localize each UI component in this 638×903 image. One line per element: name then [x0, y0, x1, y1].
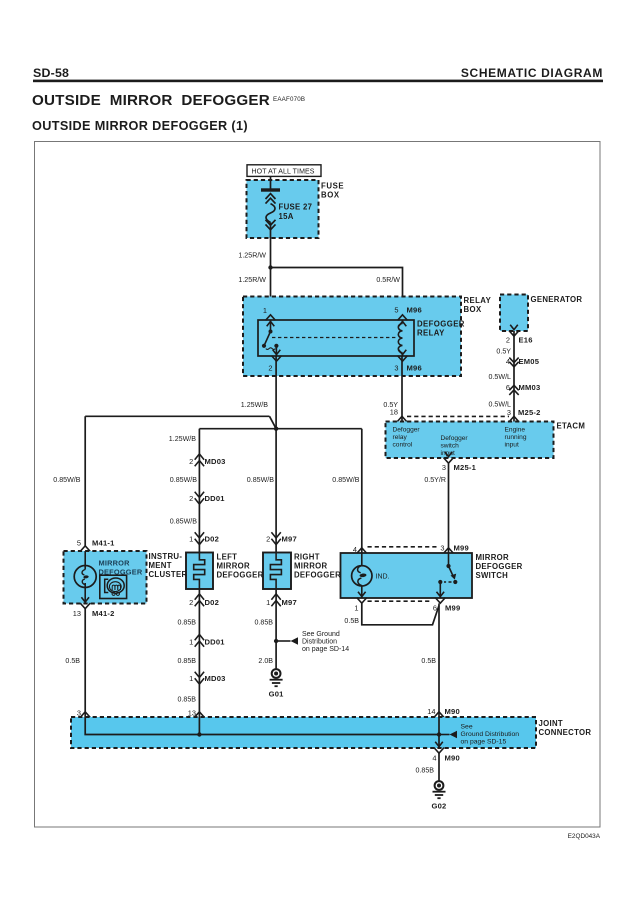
svg-text:DD01: DD01 — [205, 638, 226, 647]
wire distribution run A — [85, 415, 269, 417]
note see ground distribution SD-15 — [439, 734, 450, 736]
svg-text:DEFOGGER: DEFOGGER — [217, 571, 264, 580]
svg-text:BOX: BOX — [464, 305, 482, 314]
svg-text:ETACM: ETACM — [557, 422, 586, 431]
svg-text:0.5Y: 0.5Y — [496, 348, 511, 356]
svg-text:5: 5 — [394, 306, 398, 315]
svg-text:M97: M97 — [282, 535, 297, 544]
svg-text:3: 3 — [394, 364, 398, 373]
svg-text:MIRROR: MIRROR — [294, 562, 327, 571]
svg-text:CONNECTOR: CONNECTOR — [539, 728, 592, 737]
svg-text:relay: relay — [393, 434, 408, 441]
pin 3 M25-2 chevron — [509, 416, 519, 422]
svg-text:0.85W/B: 0.85W/B — [53, 476, 80, 484]
svg-text:running: running — [505, 434, 527, 441]
connector M97 pin 1 — [271, 594, 280, 600]
connector MD03 pin 2 — [195, 454, 204, 460]
wire generator to ETACM — [513, 331, 515, 422]
svg-text:G01: G01 — [269, 690, 285, 699]
defogger pictogram — [100, 575, 127, 598]
svg-text:CLUSTER: CLUSTER — [149, 570, 188, 579]
label HOT AT ALL TIMES — [247, 165, 321, 177]
svg-text:EAAF070B: EAAF070B — [273, 96, 305, 103]
svg-text:2: 2 — [266, 535, 270, 544]
svg-text:MIRROR: MIRROR — [476, 553, 509, 562]
connector D02 pin 2 — [195, 594, 204, 600]
wire M41-2 to joint connector pin 3 — [84, 609, 86, 717]
wire branch to relay pin 5 — [271, 268, 403, 321]
svg-text:Distribution: Distribution — [302, 639, 337, 646]
svg-text:18: 18 — [390, 408, 398, 417]
svg-text:DD01: DD01 — [205, 494, 226, 503]
svg-text:JOINT: JOINT — [539, 719, 563, 728]
svg-text:0.5B: 0.5B — [65, 657, 80, 665]
svg-text:3: 3 — [440, 543, 444, 552]
ground G02 — [435, 781, 444, 790]
wire switch pin 6 to M90 — [438, 603, 440, 717]
relay box outline — [243, 297, 461, 377]
svg-text:1: 1 — [354, 604, 358, 613]
svg-text:4: 4 — [432, 754, 436, 763]
connector dashed line M99 top — [368, 546, 437, 548]
pin 4 M90 — [434, 748, 444, 754]
svg-text:M90: M90 — [445, 707, 460, 716]
pin 1 — [357, 598, 367, 604]
mirror defogger indicator box — [64, 551, 147, 604]
wire below left defogger — [198, 589, 200, 717]
wire stub from hot feed — [270, 176, 272, 189]
svg-text:5: 5 — [77, 539, 81, 548]
relay coil — [402, 320, 404, 324]
indicator bulb — [361, 553, 363, 566]
wire relay pin2 down — [275, 356, 277, 429]
wire relay pin3 to ETACM pin18 — [401, 356, 403, 422]
wire to M97 — [275, 429, 277, 553]
wire to MD03 — [198, 429, 200, 553]
svg-text:Ground Distribution: Ground Distribution — [461, 731, 520, 738]
svg-text:M96: M96 — [407, 306, 422, 315]
svg-text:E16: E16 — [519, 336, 533, 345]
svg-text:E2QD043A: E2QD043A — [568, 833, 601, 840]
mirror defogger switch box — [341, 553, 473, 598]
pin 13 M41-2 — [80, 603, 90, 609]
svg-text:MD03: MD03 — [205, 674, 226, 683]
pin 6 M99 — [435, 598, 445, 604]
svg-text:RELAY: RELAY — [417, 329, 445, 338]
svg-text:M99: M99 — [445, 604, 460, 613]
fuse box outline — [247, 180, 319, 238]
svg-text:0.85W/B: 0.85W/B — [170, 476, 197, 484]
fuse F27 15A — [266, 194, 276, 199]
svg-text:FUSE 27: FUSE 27 — [279, 203, 313, 212]
svg-text:OUTSIDE MIRROR DEFOGGER: OUTSIDE MIRROR DEFOGGER — [32, 92, 270, 109]
wire to switch pin 4 — [361, 429, 363, 553]
header rule — [33, 80, 603, 83]
svg-text:Defogger: Defogger — [441, 435, 469, 442]
svg-text:M25-1: M25-1 — [454, 463, 477, 472]
svg-text:M25-2: M25-2 — [518, 408, 541, 417]
right mirror defogger R2 — [263, 553, 291, 590]
svg-text:1: 1 — [266, 598, 270, 607]
svg-text:control: control — [393, 442, 413, 449]
svg-text:0.85B: 0.85B — [177, 696, 196, 704]
svg-text:3: 3 — [442, 463, 446, 472]
svg-text:MIRROR: MIRROR — [99, 559, 131, 568]
svg-text:MD03: MD03 — [205, 457, 226, 466]
svg-text:0.5B: 0.5B — [344, 617, 359, 625]
connector DD01 pin 1 — [195, 634, 204, 640]
svg-text:1: 1 — [189, 535, 193, 544]
svg-text:0.5R/W: 0.5R/W — [376, 276, 400, 284]
svg-text:15A: 15A — [279, 212, 294, 221]
svg-text:SWITCH: SWITCH — [476, 571, 509, 580]
svg-text:2: 2 — [506, 336, 510, 345]
left mirror defogger R1 — [186, 553, 213, 590]
ETACM connector dashed line — [407, 415, 509, 417]
svg-text:MENT: MENT — [149, 561, 172, 570]
svg-text:DEFOGGER: DEFOGGER — [417, 320, 465, 329]
svg-text:IND.: IND. — [376, 573, 390, 580]
svg-text:SD-58: SD-58 — [33, 66, 69, 80]
svg-text:1: 1 — [189, 638, 193, 647]
svg-text:D02: D02 — [205, 535, 220, 544]
svg-text:0.85B: 0.85B — [177, 657, 196, 665]
svg-text:DEFOGGER: DEFOGGER — [294, 571, 341, 580]
svg-text:14: 14 — [427, 707, 435, 716]
svg-text:M41-1: M41-1 — [92, 539, 115, 548]
pin 3 M25-1 — [444, 458, 454, 464]
connector MD03 pin 1 — [195, 678, 204, 684]
svg-text:0.5Y/R: 0.5Y/R — [424, 476, 446, 484]
svg-text:Defogger: Defogger — [393, 427, 421, 434]
svg-text:EM05: EM05 — [519, 357, 540, 366]
svg-text:0.5W/L: 0.5W/L — [489, 373, 512, 381]
svg-text:1.25R/W: 1.25R/W — [238, 251, 266, 259]
bus bar — [261, 188, 280, 191]
svg-text:M96: M96 — [407, 364, 422, 373]
defogger relay U1 body — [258, 320, 414, 356]
svg-text:BOX: BOX — [321, 191, 340, 200]
svg-text:RELAY: RELAY — [464, 296, 492, 305]
svg-text:D02: D02 — [205, 598, 220, 607]
ground G01 — [272, 669, 281, 678]
svg-text:0.5B: 0.5B — [421, 657, 436, 665]
connector dashed line M99 bottom — [368, 600, 431, 602]
svg-text:GENERATOR: GENERATOR — [531, 295, 583, 304]
joint connector box — [71, 717, 536, 748]
indicator lamp — [84, 551, 86, 570]
svg-text:0.85B: 0.85B — [415, 767, 434, 775]
svg-text:0.85B: 0.85B — [254, 619, 273, 627]
svg-text:MM03: MM03 — [519, 383, 541, 392]
wire fuse to relay pin 1 — [270, 222, 272, 320]
junction fuse branch — [268, 265, 272, 269]
svg-text:1.25W/B: 1.25W/B — [169, 435, 196, 443]
svg-text:1: 1 — [189, 674, 193, 683]
wire distribution run B — [199, 428, 361, 430]
svg-text:Engine: Engine — [505, 427, 526, 434]
svg-text:INSTRU-: INSTRU- — [149, 552, 183, 561]
svg-text:13: 13 — [73, 609, 81, 618]
svg-text:MIRROR: MIRROR — [217, 562, 250, 571]
svg-text:2: 2 — [189, 494, 193, 503]
svg-text:2.0B: 2.0B — [258, 657, 273, 665]
joint connector bus — [85, 717, 439, 735]
svg-text:1.25R/W: 1.25R/W — [238, 276, 266, 284]
svg-text:M97: M97 — [282, 598, 297, 607]
svg-text:2: 2 — [189, 598, 193, 607]
wire to M41-1 — [84, 416, 86, 546]
svg-text:RIGHT: RIGHT — [294, 553, 320, 562]
wire M25-1 to switch pin 3 — [448, 463, 450, 553]
svg-text:0.85W/B: 0.85W/B — [247, 476, 274, 484]
svg-text:G02: G02 — [432, 802, 447, 811]
relay actuation dashed link — [272, 337, 398, 339]
connector DD01 pin 2 — [195, 498, 204, 504]
svg-text:0.85B: 0.85B — [177, 619, 196, 627]
svg-text:6: 6 — [506, 383, 510, 392]
svg-text:2: 2 — [189, 457, 193, 466]
svg-text:LEFT: LEFT — [217, 553, 238, 562]
svg-text:M90: M90 — [445, 754, 460, 763]
switch contact S1 — [448, 553, 450, 566]
svg-text:0.85W/B: 0.85W/B — [170, 518, 197, 526]
relay switch contact — [270, 320, 272, 332]
svg-text:1.25W/B: 1.25W/B — [241, 401, 268, 409]
svg-text:M99: M99 — [454, 543, 469, 552]
svg-text:2: 2 — [268, 364, 272, 373]
wire to ground G02 — [438, 753, 440, 781]
ETACM box — [386, 422, 554, 459]
svg-text:FUSE: FUSE — [321, 182, 344, 191]
svg-text:1: 1 — [263, 306, 267, 315]
junction node — [274, 427, 278, 431]
svg-text:on page SD-15: on page SD-15 — [461, 739, 507, 746]
svg-text:DEFOGGER: DEFOGGER — [476, 562, 523, 571]
wire switch pin 1 merge — [362, 603, 439, 624]
svg-text:SCHEMATIC DIAGRAM: SCHEMATIC DIAGRAM — [461, 66, 603, 80]
svg-text:HOT AT ALL TIMES: HOT AT ALL TIMES — [252, 169, 315, 176]
svg-text:M41-2: M41-2 — [92, 609, 115, 618]
connector D02 pin 1 — [195, 539, 204, 545]
svg-text:switch: switch — [441, 443, 460, 450]
connector M97 pin 2 — [271, 539, 280, 545]
svg-text:input: input — [505, 442, 519, 449]
junction to ground note — [274, 639, 278, 643]
svg-text:See: See — [461, 724, 473, 731]
diagram frame — [35, 142, 601, 828]
svg-text:on page SD-14: on page SD-14 — [302, 646, 349, 653]
svg-text:0.85W/B: 0.85W/B — [332, 476, 359, 484]
svg-text:See Ground: See Ground — [302, 631, 340, 638]
wire to ground G01 — [275, 589, 277, 669]
generator box — [500, 295, 528, 332]
svg-text:OUTSIDE MIRROR DEFOGGER (1): OUTSIDE MIRROR DEFOGGER (1) — [32, 119, 248, 133]
